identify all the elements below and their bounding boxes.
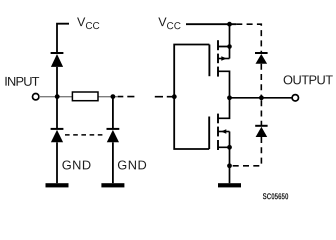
svg-text:OUTPUT: OUTPUT xyxy=(283,72,333,87)
output terminal xyxy=(292,95,298,101)
wire: dashed Vcc to D4 cathode xyxy=(236,24,261,52)
node C (gate input junction dot) xyxy=(172,94,177,99)
wire: D1 anode to input node xyxy=(56,67,58,97)
wire: dashed input lead (right) xyxy=(155,96,172,98)
wire: dashed D4 anode to output node xyxy=(260,64,262,96)
OUTPUT label xyxy=(283,72,333,87)
wire: dashed input lead (left) xyxy=(118,96,135,98)
GND label (left) xyxy=(62,157,92,172)
ground (middle) xyxy=(101,183,124,187)
svg-text:INPUT: INPUT xyxy=(4,74,39,89)
wire: left Vcc stub xyxy=(57,24,69,53)
wire: Q2 drain to output node xyxy=(218,98,230,119)
wire: Q1 source to Vcc xyxy=(218,24,230,46)
wire: Q2 source to ground xyxy=(218,147,230,183)
wire: resistor to node B xyxy=(98,96,118,98)
transistor Q1 gate (PMOS) xyxy=(208,45,210,77)
INPUT label xyxy=(4,74,39,89)
ground (left) xyxy=(46,183,69,187)
svg-text:SC05650: SC05650 xyxy=(263,191,289,201)
diode D1 (input node to Vcc) xyxy=(51,53,64,67)
wire: input terminal to resistor xyxy=(39,96,72,98)
transistor Q2 channel (NMOS) xyxy=(217,114,219,150)
diode D4 (output to Vcc, parasitic) xyxy=(255,53,268,64)
node G (output diode tap dot) xyxy=(259,95,264,100)
node H (Q2 source dot) xyxy=(227,145,232,150)
transistor Q2 bulk arrow xyxy=(218,129,230,147)
diode D5 (gnd to output, parasitic) xyxy=(255,126,267,137)
wire: Q1 drain to output node xyxy=(218,71,230,95)
node D (Vcc junction dot) xyxy=(227,22,232,27)
diode D3 (gnd to node B) xyxy=(107,129,120,142)
wire: node A to D2 cathode xyxy=(56,97,58,129)
Vcc label (left) xyxy=(77,15,100,32)
wire: D3 anode to ground xyxy=(112,142,114,183)
wire: dashed link D2 to D3 xyxy=(65,134,106,136)
transistor Q1 bulk arrow xyxy=(218,47,230,61)
wire: dashed output node to D5 cathode xyxy=(260,100,262,125)
Vcc label (right) xyxy=(158,15,181,32)
svg-text:GND: GND xyxy=(62,157,92,172)
resistor R1 xyxy=(72,92,98,101)
diode D2 (gnd to input node) xyxy=(51,129,64,142)
wire: D2 anode to ground xyxy=(56,142,58,183)
node E (Q1 source dot) xyxy=(227,44,232,49)
node A (input junction dot) xyxy=(55,94,60,99)
GND label (middle) xyxy=(117,157,147,172)
svg-text:GND: GND xyxy=(117,157,147,172)
wire: node B to D3 cathode xyxy=(112,97,114,129)
transistor Q2 gate (NMOS) xyxy=(208,117,210,150)
wire: gate bracket (node C to both gates) xyxy=(174,45,209,150)
node I (gnd diode tap dot) xyxy=(227,163,232,168)
ground (right) xyxy=(218,183,241,187)
SC05650 figure code xyxy=(263,191,289,201)
node F (output junction dot) xyxy=(227,95,232,100)
wire: dashed D5 anode to source rail xyxy=(232,137,261,166)
transistor Q1 channel (PMOS) xyxy=(217,40,219,76)
node B (resistor output junction dot) xyxy=(111,94,116,99)
input terminal xyxy=(33,94,39,100)
wire: Vcc rail to node D xyxy=(186,23,236,25)
wire: output line xyxy=(230,97,293,99)
